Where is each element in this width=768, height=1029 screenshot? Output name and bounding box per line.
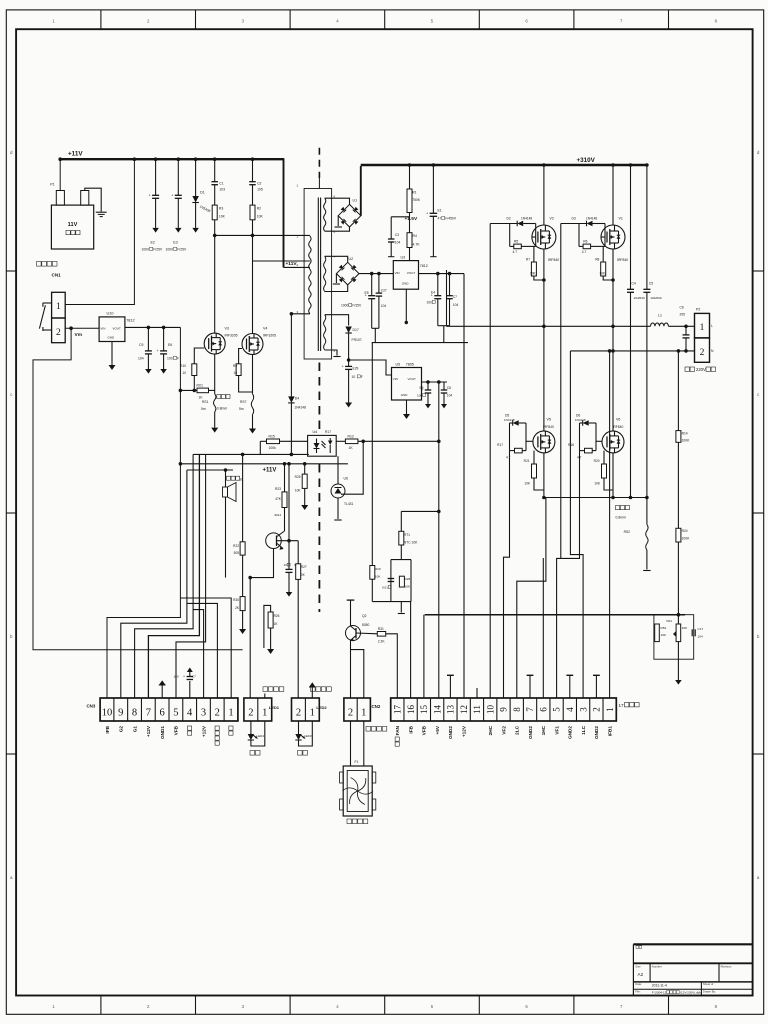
svg-text:10K: 10K bbox=[295, 489, 302, 493]
svg-text:IRF840: IRF840 bbox=[617, 258, 628, 262]
svg-text:CN3: CN3 bbox=[87, 704, 96, 709]
svg-text:2LC: 2LC bbox=[515, 725, 520, 734]
connector LED2 green lamp socket bbox=[292, 698, 320, 721]
svg-text:IFB: IFB bbox=[105, 725, 110, 733]
resistor R12 1K bbox=[336, 440, 345, 442]
label constantan wire bbox=[217, 395, 221, 399]
shunt RS2 constantan bbox=[646, 498, 648, 525]
thermistor RT1 NTC 10K bbox=[400, 511, 402, 531]
svg-text:1: 1 bbox=[56, 302, 61, 312]
svg-text:Q2: Q2 bbox=[362, 614, 367, 618]
svg-text:2: 2 bbox=[592, 707, 602, 712]
svg-text:1: 1 bbox=[52, 1004, 55, 1009]
transformer core lines bbox=[317, 198, 319, 352]
junction dots on +310V rail bbox=[408, 163, 412, 167]
svg-text:+12V: +12V bbox=[146, 725, 151, 737]
svg-text:F1: F1 bbox=[355, 760, 359, 764]
svg-text:1000: 1000 bbox=[142, 248, 150, 252]
svg-text:47: 47 bbox=[438, 217, 442, 221]
label constantan wire 2 bbox=[616, 506, 620, 510]
svg-text:C8: C8 bbox=[447, 386, 451, 390]
svg-text:Number: Number bbox=[652, 965, 662, 969]
label cooling fan bbox=[347, 819, 352, 824]
svg-text:1N5408: 1N5408 bbox=[199, 204, 211, 213]
svg-text:11: 11 bbox=[472, 705, 482, 714]
stub above L line bbox=[446, 270, 448, 326]
svg-text:GND2: GND2 bbox=[594, 726, 599, 739]
svg-text:GND1: GND1 bbox=[160, 726, 165, 739]
svg-text:104/630: 104/630 bbox=[650, 296, 661, 300]
U5 VOUT +5V line bbox=[422, 381, 448, 383]
Q2 base resistor R31 2.2K bbox=[356, 632, 377, 635]
svg-text:RT1: RT1 bbox=[404, 533, 410, 537]
svg-text:R1: R1 bbox=[412, 191, 416, 195]
regulator U10 7812 bbox=[99, 317, 125, 342]
VFB feedback line bbox=[425, 614, 685, 616]
svg-text:750K: 750K bbox=[412, 198, 421, 202]
svg-text:LED1: LED1 bbox=[269, 705, 280, 710]
potentiometer VR1 10K bbox=[677, 615, 679, 624]
capacitor C7 104 bbox=[449, 274, 451, 296]
svg-text:+1.5V: +1.5V bbox=[405, 216, 418, 222]
svg-text:LED4: LED4 bbox=[257, 734, 265, 738]
wire battery + to rail bbox=[59, 159, 61, 190]
svg-text:R20: R20 bbox=[594, 459, 600, 463]
svg-text:U1: U1 bbox=[353, 199, 358, 203]
svg-text:105: 105 bbox=[257, 188, 263, 192]
svg-text:10K: 10K bbox=[661, 633, 667, 637]
svg-text:7: 7 bbox=[620, 1004, 623, 1009]
wire CN1 pin1 to +11V rail bbox=[65, 159, 134, 304]
junction dots on +11V rail bbox=[58, 157, 62, 161]
svg-text:P2: P2 bbox=[696, 308, 700, 312]
output N line bbox=[570, 350, 694, 352]
svg-text:V1: V1 bbox=[619, 216, 623, 220]
svg-text:C17: C17 bbox=[698, 627, 704, 631]
svg-text:5: 5 bbox=[431, 1004, 434, 1009]
svg-text:c: c bbox=[757, 392, 760, 397]
svg-text:IRF3205: IRF3205 bbox=[225, 334, 238, 338]
mosfet V1 IRF840 bbox=[601, 225, 625, 249]
svg-text:17: 17 bbox=[393, 705, 403, 715]
svg-text:U10: U10 bbox=[107, 312, 114, 316]
svg-text:C7: C7 bbox=[192, 675, 196, 679]
resistor R27 2K bbox=[297, 541, 299, 564]
svg-text:4: 4 bbox=[336, 1004, 339, 1009]
svg-text:IRF840: IRF840 bbox=[543, 425, 554, 429]
svg-text:R9: R9 bbox=[233, 364, 237, 368]
17-pin pin11 stub bbox=[476, 688, 478, 698]
svg-text:10K: 10K bbox=[257, 215, 264, 219]
capacitor C13 10uF bbox=[288, 541, 290, 570]
inductor L1 bbox=[651, 323, 669, 326]
svg-text:505: 505 bbox=[234, 551, 240, 555]
svg-text:1: 1 bbox=[605, 707, 615, 712]
fan F1 bbox=[350, 721, 352, 766]
gate network D3 1N4148 / R6 4.7 bbox=[561, 223, 587, 225]
svg-text:Revision: Revision bbox=[721, 965, 732, 969]
svg-text:d: d bbox=[10, 150, 13, 155]
wires S3 to D17 bbox=[325, 315, 349, 326]
svg-text:10K: 10K bbox=[682, 626, 688, 630]
U3 GND lead bbox=[405, 289, 407, 322]
diode D4 1N4148 bbox=[290, 314, 292, 397]
svg-text:2: 2 bbox=[215, 708, 220, 719]
svg-text:8: 8 bbox=[715, 1004, 718, 1009]
battery P1 11V bbox=[51, 205, 93, 249]
label sine 220V output bbox=[685, 367, 689, 371]
svg-text:2.2K: 2.2K bbox=[378, 640, 386, 644]
svg-text:FR107: FR107 bbox=[352, 338, 362, 342]
shunt RS1 5mohm bbox=[214, 394, 216, 412]
capacitor C9 104 bbox=[147, 327, 149, 351]
svg-text:R30: R30 bbox=[233, 598, 239, 602]
svg-text:104: 104 bbox=[453, 303, 459, 307]
svg-text:C1: C1 bbox=[219, 181, 223, 185]
svg-text:1000: 1000 bbox=[166, 248, 174, 252]
svg-text:C27: C27 bbox=[381, 289, 387, 293]
wire V3 source to RS1 bbox=[214, 354, 216, 394]
ground stub above LED2 pin1 bbox=[311, 687, 313, 698]
svg-text:R23: R23 bbox=[275, 487, 281, 491]
svg-text:1N4148: 1N4148 bbox=[504, 418, 515, 422]
svg-text:C6: C6 bbox=[680, 306, 684, 310]
aux rail to U5 bbox=[349, 360, 392, 375]
svg-text:104: 104 bbox=[138, 357, 144, 361]
wire E4/C7 to GND bus bbox=[438, 325, 450, 327]
wire V6 source to HV- bus bbox=[612, 453, 614, 498]
svg-text:+11V: +11V bbox=[263, 468, 277, 474]
resistor R21 10K bbox=[533, 451, 535, 464]
svg-text:VR1: VR1 bbox=[666, 619, 672, 623]
wire monitor top line y454 bbox=[259, 441, 261, 454]
svg-text:+5V: +5V bbox=[435, 725, 440, 734]
svg-text:R2: R2 bbox=[257, 207, 261, 211]
svg-text:+: + bbox=[342, 364, 344, 368]
svg-text:5m: 5m bbox=[239, 407, 244, 411]
R28/C16 parallel box bbox=[391, 559, 411, 561]
svg-text:U5: U5 bbox=[396, 362, 401, 366]
shunt RS7 5mohm bbox=[251, 394, 253, 415]
svg-text:R17: R17 bbox=[497, 443, 503, 447]
svg-text:d: d bbox=[757, 150, 760, 155]
ground under RS1 bbox=[214, 412, 216, 428]
svg-text:7: 7 bbox=[620, 19, 623, 24]
svg-text:2HC: 2HC bbox=[488, 725, 493, 735]
resistor R8 10K gate-source V1 bbox=[602, 246, 604, 262]
led LED4 red bbox=[250, 721, 252, 734]
svg-text:104/630: 104/630 bbox=[634, 296, 645, 300]
svg-text:4: 4 bbox=[336, 19, 339, 24]
wire V2 source down (phase A) bbox=[543, 249, 545, 431]
svg-text:2: 2 bbox=[296, 708, 301, 719]
wire VR1 wiper to ground bbox=[677, 659, 679, 680]
svg-text:7: 7 bbox=[334, 255, 336, 259]
svg-text:RS2: RS2 bbox=[624, 530, 631, 534]
wire U10 VOUT +12V line bbox=[125, 326, 180, 328]
svg-text:47K: 47K bbox=[275, 497, 282, 501]
svg-text:5: 5 bbox=[334, 230, 336, 234]
svg-text:1: 1 bbox=[228, 708, 233, 719]
svg-text:D2: D2 bbox=[507, 217, 511, 221]
svg-text:E2: E2 bbox=[151, 241, 155, 245]
svg-text:GND2: GND2 bbox=[448, 726, 453, 739]
trimmer network box VR1/R52/C17 bbox=[654, 615, 694, 660]
svg-text:10K: 10K bbox=[594, 482, 601, 486]
svg-text:GND: GND bbox=[402, 281, 410, 285]
svg-text:b: b bbox=[10, 634, 13, 639]
svg-text:9: 9 bbox=[499, 707, 509, 712]
stub LED1 pin1 bbox=[264, 694, 266, 699]
phase column B: rail to V1 to V6 bbox=[612, 165, 614, 225]
svg-text:R12: R12 bbox=[348, 435, 354, 439]
svg-text:10: 10 bbox=[182, 371, 186, 375]
svg-text:7: 7 bbox=[525, 707, 535, 712]
transformer primary winding bbox=[309, 236, 311, 314]
svg-text:100K: 100K bbox=[682, 439, 691, 443]
svg-text:F: F bbox=[361, 375, 363, 379]
bridge rectifier U1 bbox=[338, 204, 361, 227]
svg-text:C3: C3 bbox=[395, 233, 399, 237]
svg-text:U6: U6 bbox=[344, 477, 348, 481]
resistor R52 10K bbox=[655, 624, 660, 642]
GND bus line bbox=[372, 342, 468, 344]
U1 - terminal stub bbox=[337, 216, 339, 226]
svg-text:LED3: LED3 bbox=[304, 734, 312, 738]
optocoupler U4 bbox=[308, 435, 337, 456]
mosfet V3 IRF3205 bbox=[204, 333, 225, 354]
svg-text:6: 6 bbox=[525, 1004, 528, 1009]
isolation dashed line below transformer bbox=[318, 363, 320, 432]
svg-text:104: 104 bbox=[381, 304, 387, 308]
svg-text:E5: E5 bbox=[365, 291, 369, 295]
svg-text:10K: 10K bbox=[405, 585, 411, 589]
svg-text:RX1: RX1 bbox=[197, 384, 204, 388]
svg-text:+: + bbox=[426, 211, 428, 215]
svg-text:GND: GND bbox=[401, 393, 409, 397]
svg-text:IRF840: IRF840 bbox=[548, 258, 559, 262]
svg-text:D6: D6 bbox=[576, 414, 580, 418]
svg-text:R25: R25 bbox=[295, 475, 301, 479]
capacitor E1 47uF/450V bbox=[432, 165, 434, 213]
svg-text:C5: C5 bbox=[649, 282, 653, 286]
GND1 column to R29 bbox=[371, 343, 373, 566]
svg-text:7812: 7812 bbox=[420, 264, 428, 268]
wire x289 column from +11V to base bbox=[288, 464, 290, 541]
svg-text:LED2: LED2 bbox=[316, 705, 327, 710]
17-pin pin1 riser to N line bbox=[609, 351, 611, 698]
svg-text:100k: 100k bbox=[269, 446, 277, 450]
resistor R9 10ohm V4 gate bbox=[239, 349, 242, 364]
svg-text:R10: R10 bbox=[180, 364, 186, 368]
resistor R14 100K bbox=[677, 351, 679, 431]
svg-text:10K: 10K bbox=[524, 482, 531, 486]
svg-text:100: 100 bbox=[417, 394, 422, 398]
led LED3 green bbox=[298, 721, 300, 734]
svg-text:10K: 10K bbox=[599, 272, 606, 276]
svg-text:10: 10 bbox=[102, 708, 113, 719]
resistor R1 750K from +310V bbox=[409, 165, 411, 189]
svg-text:103: 103 bbox=[219, 188, 225, 192]
transistor Q2 8050 fan driver bbox=[346, 626, 361, 641]
17-pin pin9 riser to V5 gate network bbox=[504, 451, 510, 698]
svg-text:5m: 5m bbox=[201, 407, 206, 411]
svg-text:4: 4 bbox=[187, 708, 193, 719]
svg-text:IRF3205: IRF3205 bbox=[263, 334, 276, 338]
svg-text:NTC 10K: NTC 10K bbox=[404, 541, 418, 545]
output L line bbox=[447, 325, 651, 327]
svg-text:F/25V: F/25V bbox=[153, 248, 163, 252]
svg-text:8: 8 bbox=[715, 19, 718, 24]
transformer secondary winding S2 bbox=[324, 256, 326, 291]
svg-text:3: 3 bbox=[242, 1004, 245, 1009]
wire CN1 pin2 Vm to U10 VIN bbox=[65, 327, 99, 329]
resistor R22 51K bbox=[242, 454, 244, 541]
svg-text:VOUT: VOUT bbox=[113, 327, 122, 331]
svg-text:R15: R15 bbox=[269, 435, 275, 439]
Q2 collector stub bbox=[350, 600, 352, 626]
net +11V2 centre tap wire bbox=[284, 266, 310, 268]
phase column A: rail to V2 to V5 bbox=[543, 165, 545, 225]
svg-text:3: 3 bbox=[578, 707, 588, 712]
wire V5 source to HV- bus bbox=[543, 453, 545, 498]
svg-text:4: 4 bbox=[565, 707, 575, 712]
resistor R26 1K inverted-U bbox=[264, 605, 271, 648]
capacitor E5 1000uF/25V bbox=[371, 274, 373, 296]
U2 - terminal stub bbox=[335, 274, 337, 283]
capacitor E2 1000uF/25V bbox=[155, 159, 157, 195]
HV- bus line bbox=[544, 497, 647, 499]
svg-text:Date:: Date: bbox=[635, 982, 642, 986]
resistor R23 47K bbox=[284, 464, 286, 492]
resistor R10 10ohm V3 gate bbox=[194, 348, 204, 364]
svg-text:Drawn By:: Drawn By: bbox=[703, 990, 716, 994]
fan blades bbox=[358, 778, 366, 791]
svg-text:IRF840: IRF840 bbox=[613, 425, 624, 429]
svg-text:A2: A2 bbox=[638, 972, 644, 977]
svg-text:D3: D3 bbox=[572, 217, 576, 221]
svg-text:4.7K: 4.7K bbox=[413, 243, 421, 247]
svg-text:V5: V5 bbox=[547, 418, 551, 422]
wire +12V column down-left bus bbox=[107, 327, 180, 698]
svg-text:V4: V4 bbox=[263, 327, 267, 331]
capacitor C7b 100uF above CN3 pin4 bbox=[189, 681, 191, 698]
svg-text:G2: G2 bbox=[119, 726, 124, 733]
svg-text:17: 17 bbox=[619, 703, 625, 708]
svg-text:2: 2 bbox=[147, 19, 150, 24]
wire V3 drain to primary winding top bbox=[215, 234, 310, 236]
wire Q3 emitter to LED1 pin2 bbox=[250, 549, 273, 699]
svg-text:104: 104 bbox=[395, 241, 401, 245]
svg-text:+11V: +11V bbox=[68, 151, 83, 158]
svg-text:9014: 9014 bbox=[275, 513, 282, 517]
svg-text:F/25V: F/25V bbox=[352, 304, 362, 308]
svg-text:GND: GND bbox=[108, 336, 116, 340]
svg-text:100: 100 bbox=[427, 301, 433, 305]
svg-text:+12V: +12V bbox=[201, 725, 206, 737]
svg-text:R6: R6 bbox=[583, 240, 587, 244]
svg-text:D4: D4 bbox=[295, 397, 299, 401]
svg-text:6: 6 bbox=[159, 708, 164, 719]
net +310V rail bbox=[361, 164, 648, 167]
gate drive line with RX1 bbox=[180, 389, 197, 391]
svg-text:1: 1 bbox=[297, 184, 299, 188]
resistor R24 100K bbox=[677, 442, 679, 528]
border zone ticks bbox=[100, 10, 102, 29]
svg-text:FAN: FAN bbox=[395, 725, 400, 735]
svg-text:1N4148: 1N4148 bbox=[521, 217, 532, 221]
connector P2 sine 220V output bbox=[695, 313, 710, 338]
svg-text:U3: U3 bbox=[401, 255, 406, 259]
svg-text:+: + bbox=[183, 675, 185, 679]
wire monitor line y463.8 bbox=[180, 463, 348, 465]
svg-text:R26: R26 bbox=[274, 614, 280, 618]
svg-text:R4: R4 bbox=[413, 234, 417, 238]
connector CN1 power switch bbox=[37, 262, 42, 267]
wire V4 drain node bbox=[253, 260, 310, 262]
svg-text:104: 104 bbox=[698, 635, 703, 639]
connector CN3 10-pin bbox=[100, 698, 238, 721]
svg-text:VIN: VIN bbox=[393, 377, 398, 381]
diode D1 1N5408 bbox=[195, 159, 197, 196]
wire U2 + output to U3 VIN bbox=[359, 273, 393, 275]
capacitor E29 10uF bbox=[345, 365, 352, 367]
svg-text:R27: R27 bbox=[301, 565, 307, 569]
svg-text:0.01: 0.01 bbox=[382, 586, 388, 590]
wire CN1 pin2 big left loop to bottom bus bbox=[33, 328, 243, 650]
svg-text:2011-11-4: 2011-11-4 bbox=[652, 983, 667, 987]
svg-text:0.8mm: 0.8mm bbox=[217, 407, 228, 411]
+5V column down to 17-pin pin14 (through R12 node) bbox=[438, 382, 440, 698]
wire E5/C27 to GND bus bbox=[372, 327, 379, 329]
svg-text:+: + bbox=[157, 349, 159, 353]
svg-text:2: 2 bbox=[297, 263, 299, 267]
wires S1 to bridge U1 bbox=[325, 198, 350, 204]
svg-text:+: + bbox=[149, 193, 151, 197]
svg-text:R16: R16 bbox=[568, 443, 574, 447]
svg-text:VF2: VF2 bbox=[501, 726, 506, 735]
snubber C2 + R2 on V4 drain bbox=[252, 159, 254, 182]
wire buzzer to emitter junction bbox=[225, 497, 227, 578]
svg-text:E6: E6 bbox=[168, 343, 172, 347]
gate network D5 1N4148 / R17 4.7 bbox=[513, 420, 519, 426]
svg-text:1LC: 1LC bbox=[581, 725, 586, 734]
svg-text:11V: 11V bbox=[68, 222, 78, 228]
svg-text:14: 14 bbox=[432, 705, 442, 715]
resistor R30 2K bbox=[242, 555, 244, 597]
regulator U5 7805 bbox=[392, 368, 422, 401]
junction dot phase B on L line bbox=[611, 325, 615, 329]
svg-text:D1: D1 bbox=[200, 191, 205, 195]
svg-text:10: 10 bbox=[233, 371, 237, 375]
U6 ref to R12 node bbox=[341, 441, 363, 494]
bus staircase CN3 to monitor area bbox=[121, 470, 187, 698]
transformer T1 outline box bbox=[304, 189, 332, 360]
mosfet V5 IRF840 bbox=[533, 431, 555, 453]
svg-text:F:\2004-12: F:\2004-12 bbox=[652, 991, 667, 995]
svg-text:U4: U4 bbox=[313, 430, 318, 434]
connector LED1 red lamp socket bbox=[244, 698, 272, 721]
svg-text:10: 10 bbox=[352, 375, 356, 379]
svg-text:TL431: TL431 bbox=[344, 502, 354, 506]
capacitor C16 0.01uF bbox=[388, 578, 395, 580]
svg-text:9: 9 bbox=[118, 708, 123, 719]
+12V column down to 17-pin connector pin12 bbox=[463, 274, 465, 698]
svg-text:1N4148: 1N4148 bbox=[586, 217, 597, 221]
svg-text:2: 2 bbox=[348, 708, 353, 719]
bus staircase CN3 pins 1-3 bbox=[193, 610, 204, 698]
svg-text:L: L bbox=[711, 324, 713, 328]
